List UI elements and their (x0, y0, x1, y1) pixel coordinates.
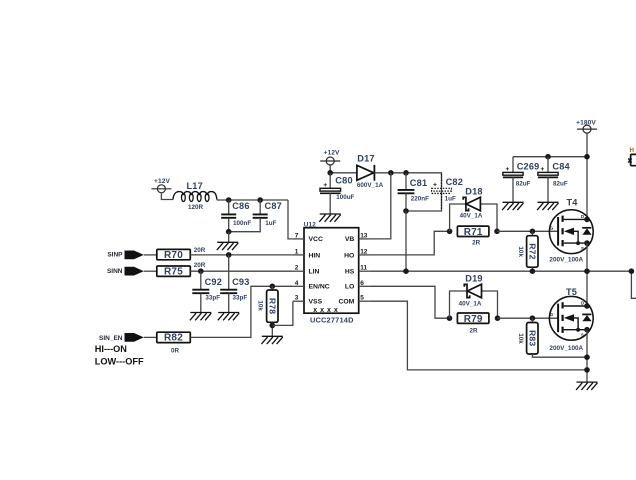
svg-text:C81: C81 (410, 178, 427, 188)
resistor R79 (457, 313, 489, 335)
capacitor C269 (electrolytic) (503, 157, 540, 203)
svg-text:D19: D19 (465, 274, 482, 284)
capacitor C87 (229, 200, 282, 232)
svg-text:R70: R70 (164, 250, 183, 261)
node HS right edge (629, 268, 635, 274)
svg-text:100uF: 100uF (336, 194, 354, 201)
svg-text:xxxx: xxxx (313, 307, 341, 314)
port SIN_EN (99, 333, 144, 342)
capacitor C80 (electrolytic) (320, 173, 355, 214)
node C80/D17 (327, 170, 333, 176)
svg-text:100nF: 100nF (233, 220, 251, 227)
transistor T4 (NMOS) (549, 197, 593, 263)
svg-text:2: 2 (295, 265, 299, 272)
inductor L17 (173, 181, 217, 211)
wire LO to gate row T5 (370, 286, 450, 318)
node HS/half-bridge (584, 268, 590, 274)
resistor R82 (157, 332, 191, 354)
svg-text:D18: D18 (465, 187, 482, 197)
svg-text:82uF: 82uF (516, 180, 531, 187)
pin 7 VCC stub (293, 238, 304, 240)
transistor T5 (NMOS) (549, 287, 593, 352)
pin 1 HIN stub (293, 254, 304, 256)
ground (C80) (319, 214, 340, 222)
svg-text:HS: HS (345, 269, 355, 276)
wire L17 to VCC rail (217, 200, 293, 239)
wire gate row T4 (497, 230, 558, 232)
svg-text:10k: 10k (517, 333, 524, 344)
svg-text:82uF: 82uF (553, 180, 568, 187)
svg-text:33pF: 33pF (205, 295, 220, 302)
wire +12V to L17 (161, 193, 173, 200)
svg-text:+12V: +12V (324, 150, 340, 157)
wire VB riser (370, 173, 391, 239)
capacitor C93 (220, 255, 249, 313)
wire HO to gate row (370, 231, 450, 255)
svg-text:40V_1A: 40V_1A (459, 301, 482, 308)
node HS/C81 (403, 268, 409, 274)
svg-text:D: D (581, 214, 584, 219)
wire +180V rail top (513, 133, 587, 219)
node +180V (584, 154, 590, 160)
svg-text:40V_1A: 40V_1A (460, 213, 483, 220)
svg-text:T5: T5 (566, 287, 577, 297)
svg-text:HI---ON: HI---ON (95, 344, 128, 354)
node C81 bottom (403, 208, 409, 214)
svg-text:1uF: 1uF (265, 220, 276, 227)
svg-text:UCC27714D: UCC27714D (310, 315, 354, 324)
node R83 bottom rail (584, 354, 590, 360)
svg-text:2R: 2R (469, 328, 478, 335)
svg-text:20R: 20R (194, 262, 206, 269)
node VB riser (388, 170, 394, 176)
node T5 source (584, 327, 590, 333)
svg-text:10k: 10k (257, 300, 264, 311)
svg-text:LO: LO (345, 284, 354, 291)
diode D17 (357, 153, 384, 189)
node R78 bottom / VSS (270, 323, 276, 329)
diode D18 (schottky) (450, 187, 497, 232)
node R72 top (530, 229, 536, 235)
node junction C87 (257, 197, 263, 203)
power +12V (bootstrap) (320, 150, 340, 165)
pin 12 HO stub (359, 254, 370, 256)
wire C81 bottom to HS (405, 211, 407, 271)
svg-text:G: G (550, 312, 553, 317)
connector (clipped, right edge) (628, 154, 636, 165)
node T4 drain (584, 217, 590, 223)
svg-text:VSS: VSS (309, 299, 323, 306)
capacitor C81 (398, 173, 430, 211)
svg-text:R82: R82 (164, 333, 183, 344)
svg-text:T4: T4 (566, 197, 578, 207)
svg-text:4: 4 (295, 280, 299, 287)
wire D17 to C81/C82 (374, 173, 441, 211)
pin 5 COM stub (359, 300, 370, 302)
wire SINN to R75 (144, 270, 157, 272)
wire R75 to LIN (190, 270, 293, 272)
wire T5 source to ground (586, 330, 588, 382)
node D19/R79 right (495, 315, 501, 321)
svg-text:SIN_EN: SIN_EN (99, 335, 123, 342)
capacitor C82 (DNP dashed) (432, 174, 452, 209)
svg-text:3: 3 (295, 295, 299, 302)
svg-text:HO: HO (344, 252, 354, 259)
node R83 top (530, 315, 536, 321)
ground (C84) (537, 202, 558, 210)
node D18/R71 right (494, 229, 500, 235)
power +180V (576, 119, 597, 133)
svg-text:+12V: +12V (154, 178, 170, 185)
svg-text:R72: R72 (528, 243, 538, 259)
pin 3 VSS stub (293, 300, 304, 302)
svg-text:U12: U12 (304, 221, 317, 228)
pin 6 LO stub (359, 285, 370, 287)
pin 4 EN/NC stub (293, 285, 304, 287)
svg-text:COM: COM (338, 299, 354, 306)
svg-text:C92: C92 (205, 277, 222, 287)
svg-text:LIN: LIN (309, 269, 320, 276)
svg-text:7: 7 (295, 232, 299, 239)
svg-text:C93: C93 (232, 277, 249, 287)
pin 2 LIN stub (293, 270, 304, 272)
svg-text:VB: VB (345, 236, 355, 243)
node T5 drain (584, 303, 590, 309)
svg-text:C84: C84 (552, 162, 570, 172)
svg-text:S: S (581, 333, 584, 338)
wire HS line (370, 271, 636, 298)
svg-text:C82: C82 (446, 177, 463, 187)
node HS/R72 (530, 268, 536, 274)
node EN/R78 (270, 284, 276, 290)
svg-text:2R: 2R (472, 239, 481, 246)
node HIN/C93 (226, 252, 232, 258)
svg-text:D17: D17 (357, 153, 374, 163)
node junction C86/C87 gnd (226, 229, 232, 235)
wire COM return (370, 301, 587, 370)
svg-text:R78: R78 (268, 298, 278, 314)
svg-text:200V_100A: 200V_100A (549, 256, 583, 263)
svg-text:R75: R75 (164, 267, 183, 278)
wire R70 to HIN (190, 254, 293, 256)
wire VSS to R78 bottom (272, 301, 293, 325)
svg-text:200V_100A: 200V_100A (549, 345, 583, 352)
wire SINP to R70 (144, 254, 157, 256)
svg-text:33pF: 33pF (233, 295, 248, 302)
svg-text:LOW---OFF: LOW---OFF (95, 356, 144, 366)
node D19/R79 left (447, 315, 453, 321)
svg-text:SINP: SINP (107, 252, 123, 259)
svg-text:12: 12 (360, 248, 368, 255)
svg-text:C80: C80 (335, 175, 352, 185)
node LIN/C92 (198, 268, 204, 274)
op-amp/driver IC U12 UCC27714D (304, 221, 359, 324)
pin 13 VB stub (359, 238, 370, 240)
ground (C93) (218, 313, 239, 321)
wire gate row T5 (498, 317, 559, 319)
node D18/R71 left (447, 229, 453, 235)
svg-text:600V_1A: 600V_1A (357, 182, 384, 189)
svg-text:13: 13 (360, 232, 368, 239)
node C81 top (403, 170, 409, 176)
resistor R83 (517, 318, 587, 357)
port SINN (107, 267, 144, 276)
svg-text:20R: 20R (194, 247, 206, 254)
svg-text:C87: C87 (265, 201, 282, 211)
svg-text:10k: 10k (517, 246, 524, 257)
svg-text:5: 5 (360, 295, 364, 302)
svg-text:11: 11 (360, 265, 367, 272)
diode D19 (schottky) (450, 274, 498, 319)
resistor R75 (157, 262, 206, 277)
svg-text:+: + (433, 182, 437, 189)
wire SIN_EN to R82 (144, 336, 157, 338)
svg-text:120R: 120R (188, 204, 204, 211)
node T4 source (584, 240, 590, 246)
capacitor C84 (electrolytic) (538, 157, 571, 203)
svg-text:VCC: VCC (309, 236, 323, 243)
svg-text:G: G (550, 225, 553, 230)
capacitor C86 (221, 200, 251, 232)
ground (C92) (190, 313, 211, 321)
svg-text:HIN: HIN (309, 252, 321, 259)
ground (R78/VSS) (261, 336, 282, 344)
resistor R70 (157, 247, 206, 261)
wire T4 source to HS (586, 243, 588, 306)
svg-text:EN/NC: EN/NC (309, 284, 330, 291)
wire R82 to EN/NC (190, 286, 293, 337)
svg-text:R79: R79 (464, 314, 483, 325)
svg-text:220nF: 220nF (411, 196, 429, 203)
svg-text:S: S (581, 246, 584, 251)
node C84 top (545, 154, 551, 160)
node COM rail (584, 367, 590, 373)
svg-text:1: 1 (295, 248, 299, 255)
svg-text:L17: L17 (186, 181, 202, 191)
ground (C86/C87) (228, 232, 230, 243)
capacitor C92 (192, 271, 222, 312)
svg-text:C269: C269 (517, 162, 540, 172)
svg-text:6: 6 (360, 280, 364, 287)
ground (C269) (502, 202, 523, 210)
svg-text:R83: R83 (528, 330, 538, 346)
ground (power stage) (576, 382, 597, 390)
svg-text:H: H (630, 148, 634, 154)
port SINP (107, 251, 143, 260)
power +12V (L17 input) (151, 178, 171, 193)
resistor R72 (517, 231, 538, 271)
resistor R78 (257, 286, 278, 336)
node junction C86 (226, 197, 232, 203)
svg-text:C86: C86 (232, 201, 249, 211)
svg-text:SINN: SINN (107, 268, 123, 275)
svg-text:0R: 0R (171, 348, 180, 355)
svg-text:R71: R71 (464, 227, 483, 238)
svg-text:1uF: 1uF (445, 196, 456, 203)
svg-text:D: D (581, 301, 584, 306)
pin 11 HS stub (359, 270, 370, 272)
wire +12V to node (330, 165, 357, 173)
resistor R71 (457, 226, 489, 246)
